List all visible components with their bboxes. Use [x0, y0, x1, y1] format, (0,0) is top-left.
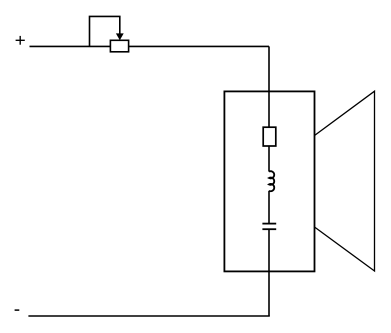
wire inductor to capacitor — [268, 191, 270, 224]
wiper arrowhead — [116, 33, 124, 40]
capacitor bottom plate — [262, 228, 276, 230]
wire top horizontal from + to speaker — [30, 45, 270, 47]
inductor (coil) — [269, 171, 274, 191]
wire capacitor down and out of box — [268, 229, 270, 316]
resistor (inside speaker) — [263, 127, 276, 146]
variable resistor (rheostat) body — [110, 40, 128, 52]
capacitor top plate — [262, 223, 276, 225]
wire bottom horizontal to - — [28, 315, 269, 317]
node + (positive terminal label) — [16, 36, 25, 45]
wire rheostat wiper loop — [90, 16, 120, 46]
loudspeaker box — [224, 91, 314, 271]
wire vertical into box to resistor — [268, 46, 270, 127]
wire resistor to inductor — [268, 146, 270, 172]
node - (negative terminal label) — [15, 309, 20, 311]
loudspeaker cone — [315, 91, 375, 271]
